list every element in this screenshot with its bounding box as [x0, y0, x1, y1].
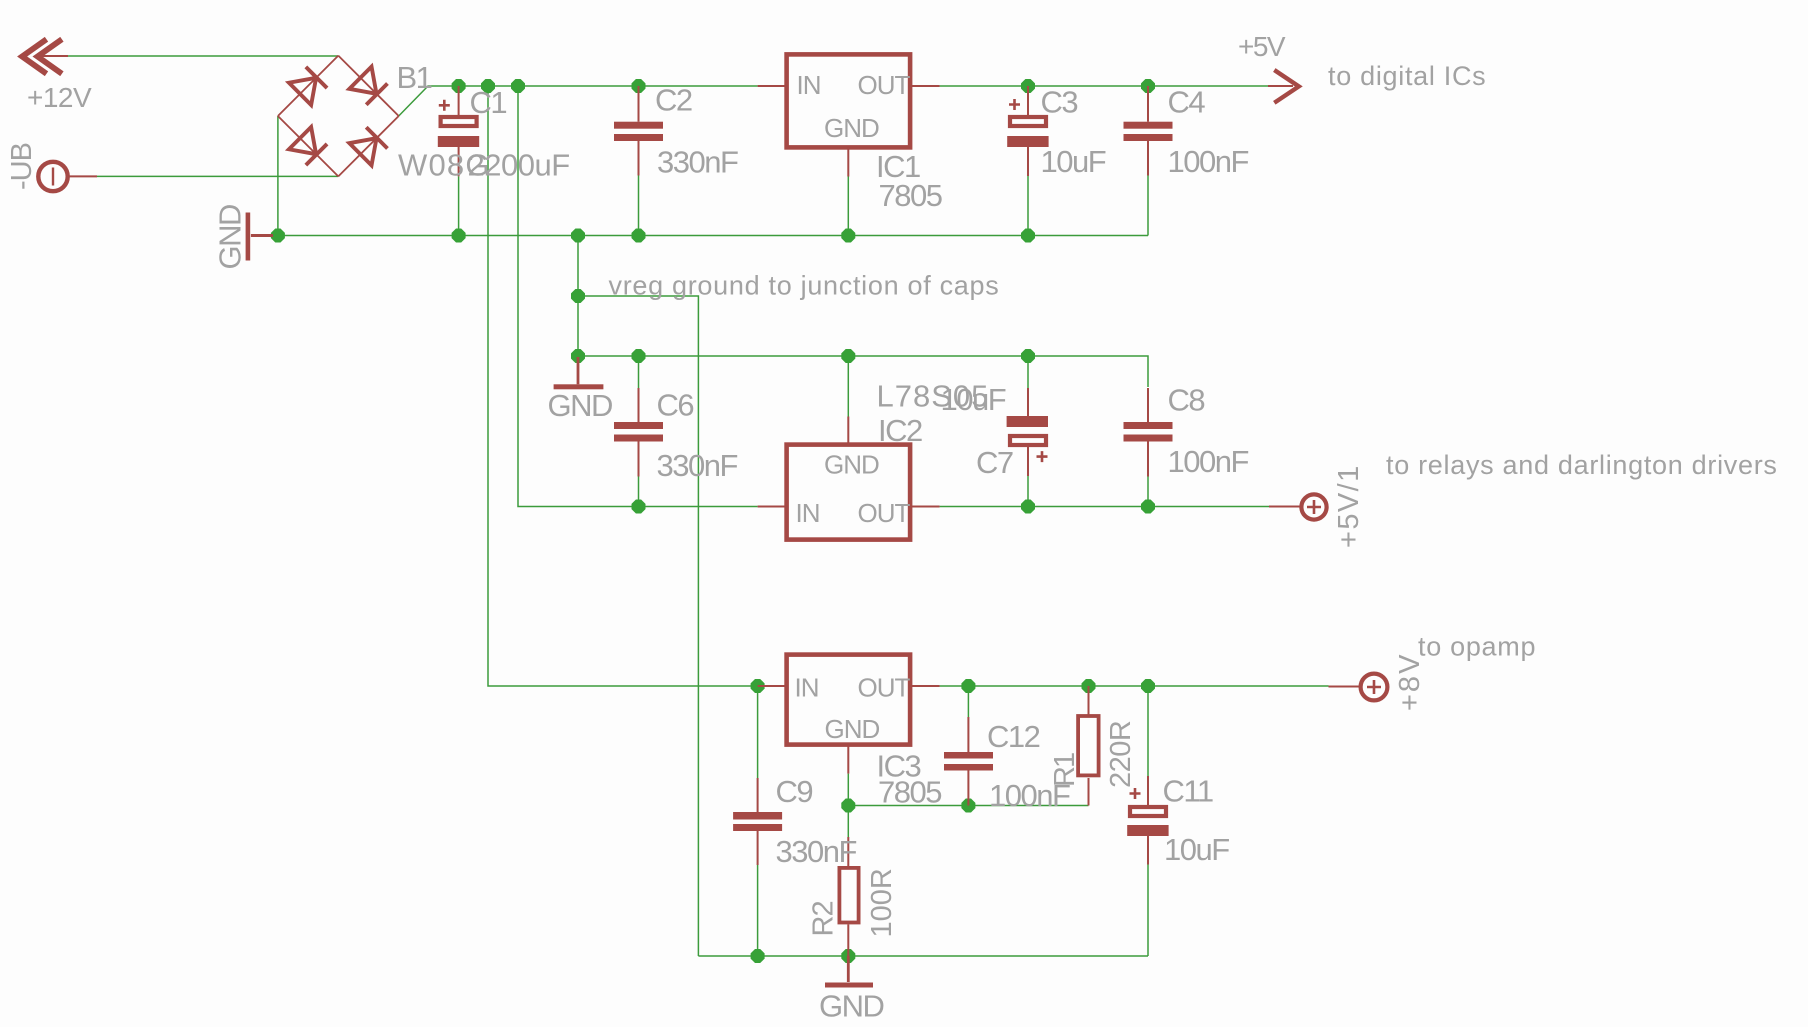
svg-text:OUT: OUT [858, 673, 911, 703]
junction vreg ground node [571, 289, 585, 303]
wire vertical x488 to IC3 IN [488, 86, 758, 686]
resistor R2 100R [839, 837, 858, 956]
ground symbol GND left [246, 213, 273, 261]
capacitor C6 (330nF) [614, 388, 663, 477]
svg-text:C7: C7 [976, 445, 1013, 480]
svg-text:C4: C4 [1168, 85, 1206, 120]
svg-text:2200uF: 2200uF [468, 148, 570, 183]
junction C12/GND mid rail [961, 799, 975, 813]
wire C8 bottom lead [1147, 477, 1149, 507]
wire IC1 GND lead [847, 176, 849, 236]
wire vertical x518 to IC2 IN [518, 86, 758, 507]
svg-text:10uF: 10uF [941, 382, 1006, 417]
svg-text:7805: 7805 [878, 775, 941, 810]
pin circle +5V/1 [1269, 494, 1327, 519]
wire IC3 GND lead [847, 774, 849, 806]
svg-text:IN: IN [797, 70, 821, 100]
svg-text:+8V: +8V [1394, 653, 1426, 711]
svg-text:C2: C2 [655, 83, 692, 118]
svg-text:to relays and darlington drive: to relays and darlington drivers [1386, 450, 1778, 480]
capacitor C8 (100nF) [1124, 388, 1173, 477]
diode D4 bottom-right [349, 127, 388, 166]
svg-text:330nF: 330nF [657, 448, 738, 483]
svg-text:100R: 100R [866, 868, 898, 937]
junction C1/ground rail [452, 229, 466, 243]
junction IC1 GND/ground rail [841, 229, 855, 243]
junction C7/cap rail [1021, 349, 1035, 363]
voltage regulator IC2 box (flipped) [758, 417, 940, 540]
svg-text:GND: GND [213, 205, 248, 270]
capacitor C4 (100nF) [1124, 86, 1173, 176]
junction x488/+12V rail [481, 79, 495, 93]
voltage regulator IC3 box [758, 655, 940, 774]
junction C9/bottom rail [751, 949, 765, 963]
wire C6 leads [638, 356, 640, 388]
junction C3/+5V rail [1021, 79, 1035, 93]
svg-text:C12: C12 [987, 719, 1040, 754]
svg-text:GND: GND [819, 989, 884, 1024]
junction GND symbol/ground rail [271, 229, 285, 243]
wire vreg ground jog to bottom rail [578, 296, 698, 956]
junction C1/+12V rail [452, 79, 466, 93]
svg-text:IN: IN [795, 673, 819, 703]
svg-text:vreg ground to junction of cap: vreg ground to junction of caps [609, 271, 1000, 301]
svg-text:C1: C1 [470, 85, 507, 120]
svg-text:to digital ICs: to digital ICs [1328, 61, 1486, 91]
wire IC1 OUT rail to +5V arrow [940, 85, 1269, 87]
junction R2/bottom rail [841, 949, 855, 963]
wire C11 leads [1147, 686, 1149, 776]
svg-text:100nF: 100nF [1168, 144, 1249, 179]
svg-text:GND: GND [825, 714, 880, 744]
junction C2/+12V rail [632, 79, 646, 93]
svg-text:+5V: +5V [1238, 31, 1286, 62]
svg-text:10uF: 10uF [1164, 832, 1229, 867]
diode D1 top-left [289, 66, 328, 105]
wire +12V to bridge top [67, 55, 338, 57]
wire IC3 GND rail y805 [848, 805, 1088, 807]
wire vertical x578 ground to cap junction rail [577, 236, 579, 357]
junction C7/IC2 OUT rail [1021, 500, 1035, 514]
bridge rectifier B1 diamond edges [278, 56, 399, 177]
junction x518/+12V rail [511, 79, 525, 93]
junction C3/ground rail [1021, 229, 1035, 243]
wire IC3 OUT rail to +8V [940, 685, 1329, 687]
ground symbol GND mid (vreg) [554, 357, 604, 389]
wire bottom ground rail [698, 955, 1148, 957]
pin circle -UB [38, 162, 67, 191]
capacitor C9 (330nF) [733, 778, 782, 865]
wire C12 top lead [967, 686, 969, 717]
junction C4/+5V rail [1141, 79, 1155, 93]
svg-text:+5V/1: +5V/1 [1333, 464, 1365, 548]
wire IC2 GND lead [847, 356, 849, 417]
capacitor C1 (polarized 2200uF) [438, 86, 479, 176]
junction R1/IC3 OUT rail [1082, 679, 1096, 693]
junction C8/IC2 OUT rail [1141, 500, 1155, 514]
voltage regulator IC1 box [758, 54, 940, 176]
wire IC2 OUT rail to +5V/1 [940, 506, 1269, 508]
junction x578/ground rail [571, 229, 585, 243]
junction IC2 GND/cap rail [841, 349, 855, 363]
wire bridge left vertex down to ground rail [277, 116, 279, 236]
svg-text:C9: C9 [776, 774, 813, 809]
capacitor C2 (330nF) [614, 86, 663, 176]
svg-text:220R: 220R [1105, 721, 1137, 788]
svg-text:R1: R1 [1049, 753, 1081, 787]
junction C11/IC3 OUT rail [1141, 679, 1155, 693]
capacitor C11 (polarized 10uF) [1127, 776, 1168, 865]
junction C6/cap rail [632, 349, 646, 363]
pin circle +8V [1329, 674, 1388, 701]
svg-text:330nF: 330nF [776, 834, 857, 869]
supply arrow +12V [22, 39, 62, 74]
diode D2 top-right [349, 67, 388, 106]
svg-text:GND: GND [824, 113, 879, 143]
wire C3 bottom lead [1027, 176, 1029, 236]
capacitor C12 (100nF) [944, 717, 993, 806]
wire ground rail [278, 235, 1148, 237]
capacitor C3 (polarized 10uF) [1007, 86, 1048, 176]
junction IC3 GND/R2 node [841, 799, 855, 813]
supply arrow +5V [1274, 70, 1299, 103]
svg-text:C3: C3 [1041, 85, 1078, 120]
svg-text:to opamp: to opamp [1418, 632, 1536, 662]
wire bridge right diagonal to +rail [399, 86, 758, 116]
wire -UB to bridge bottom [97, 175, 338, 177]
svg-text:-UB: -UB [6, 143, 38, 190]
svg-text:OUT: OUT [858, 498, 911, 528]
wire C9 leads [757, 686, 759, 778]
wire C1 bottom lead [458, 176, 460, 235]
svg-text:B1: B1 [397, 60, 432, 95]
wire R2 top lead [847, 806, 849, 838]
junction C6/IC2 IN rail [632, 500, 646, 514]
diode D3 bottom-left [289, 127, 328, 166]
svg-text:7805: 7805 [879, 178, 942, 213]
wire C7 leads [1027, 356, 1029, 388]
capacitor C7 (polarized 10uF, flipped) [1007, 388, 1048, 476]
svg-text:C8: C8 [1168, 383, 1205, 418]
junction C12/IC3 OUT rail [961, 679, 975, 693]
svg-text:IN: IN [796, 498, 820, 528]
wire C4 bottom lead [1147, 176, 1149, 236]
svg-text:GND: GND [824, 450, 879, 480]
svg-text:C6: C6 [657, 388, 694, 423]
ground symbol GND bottom [825, 956, 873, 988]
svg-text:C11: C11 [1163, 774, 1213, 809]
svg-text:GND: GND [548, 388, 613, 423]
svg-text:100nF: 100nF [1168, 444, 1249, 479]
svg-text:10uF: 10uF [1041, 144, 1106, 179]
wire C2 bottom lead [638, 176, 640, 236]
svg-text:R2: R2 [808, 901, 840, 936]
svg-text:IC2: IC2 [878, 413, 922, 448]
svg-text:OUT: OUT [858, 70, 911, 100]
resistor R1 220R [1078, 686, 1099, 806]
junction C2/ground rail [632, 229, 646, 243]
svg-text:+12V: +12V [27, 82, 92, 113]
svg-text:330nF: 330nF [657, 145, 738, 180]
junction x578/cap rail [571, 349, 585, 363]
wire mid cap junction rail y356 [578, 356, 1148, 387]
junction C9/IC3 IN rail [751, 679, 765, 693]
